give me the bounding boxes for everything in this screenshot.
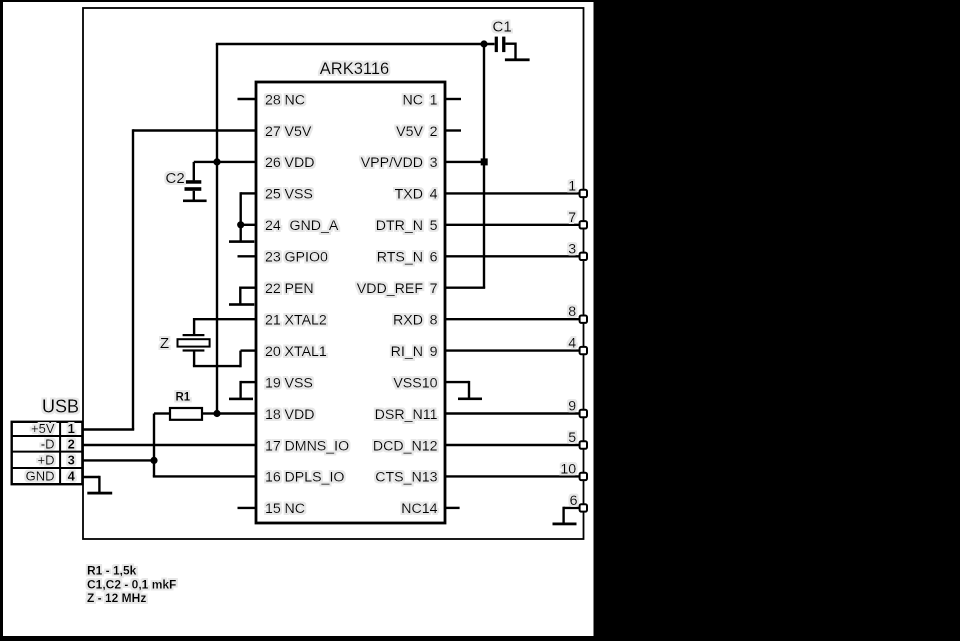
svg-text:VSS10: VSS10 [393, 375, 437, 391]
ground pin10 VSS [458, 398, 482, 401]
crystal Z bottom plate [183, 349, 205, 351]
node VDD-C1 junction [480, 40, 487, 47]
svg-text:XTAL2: XTAL2 [285, 313, 327, 329]
svg-text:VSS: VSS [285, 375, 313, 391]
wire pin3 VPP/VDD stub [445, 161, 484, 163]
wire +D vertical [153, 414, 155, 477]
wire pin4 to connector [445, 192, 580, 194]
USB connector table [12, 422, 83, 484]
svg-text:Z - 12 MHz: Z - 12 MHz [87, 591, 146, 605]
terminal circle 8 [580, 316, 587, 323]
svg-text:8: 8 [568, 304, 576, 320]
wire pin5 to connector [445, 224, 580, 226]
wire pin9 to connector [445, 349, 580, 351]
svg-text:8: 8 [430, 313, 438, 329]
capacitor C2 lead top [193, 162, 195, 181]
ground pin25 VSS [229, 240, 254, 243]
wire XTAL2 drop [193, 318, 195, 334]
resistor R1 body [170, 408, 202, 420]
node VPP/VDD junction square [481, 158, 488, 165]
wire pin26 VDD horizontal [194, 161, 256, 163]
pin 28 label NC [265, 92, 305, 108]
svg-text:DMNS_IO: DMNS_IO [285, 438, 350, 454]
svg-text:GND: GND [26, 468, 55, 483]
svg-text:1: 1 [68, 421, 75, 436]
terminal circle 6 [580, 504, 587, 511]
pin 16 label DPLS_IO [265, 470, 344, 486]
node GND_A junction [237, 221, 244, 228]
pin 24 label GND_A [265, 218, 339, 234]
svg-text:VDD: VDD [285, 155, 315, 171]
pin 22 label PEN [265, 281, 314, 297]
pin 8 label RXD [393, 313, 438, 329]
pin 21 label XTAL2 [265, 313, 327, 329]
pin 2 label V5V [396, 124, 437, 140]
wire R1 right lead [202, 412, 217, 414]
ground C2 [183, 200, 207, 203]
wire XTAL1 drop [193, 351, 195, 366]
svg-text:24: 24 [265, 218, 281, 234]
svg-text:VDD: VDD [285, 407, 315, 423]
svg-text:R1: R1 [176, 392, 191, 404]
svg-text:25: 25 [265, 187, 281, 203]
svg-text:ARK3116: ARK3116 [320, 60, 389, 78]
capacitor C2 plates [185, 180, 202, 191]
wire pin13 to connector [445, 475, 580, 477]
pin 9 label RI_N [391, 344, 438, 360]
ground pin19 VSS [229, 398, 253, 401]
svg-text:VSS: VSS [285, 187, 313, 203]
svg-text:1: 1 [430, 92, 438, 108]
svg-text:R1 - 1,5k: R1 - 1,5k [87, 564, 137, 578]
svg-text:5: 5 [430, 218, 438, 234]
svg-text:3: 3 [568, 241, 576, 257]
svg-text:22: 22 [265, 281, 281, 297]
wire pin21 XTAL2 horizontal [194, 318, 256, 320]
svg-text:26: 26 [265, 155, 281, 171]
pin 14 NC stub [445, 507, 460, 509]
pin 17 label DMNS_IO [265, 438, 349, 454]
svg-text:-D: -D [41, 437, 55, 452]
USB pin 4 GND [26, 468, 76, 483]
wire pin8 to connector [445, 318, 580, 320]
svg-text:9: 9 [430, 344, 438, 360]
terminal circle 3 [580, 253, 587, 260]
pin 26 label VDD [265, 155, 314, 171]
wire R1 left lead [154, 412, 170, 414]
wire XTAL1 bottom horizontal [193, 365, 241, 367]
wire pin22 PEN stub [240, 287, 256, 289]
wire pin6 to connector [445, 255, 580, 257]
svg-text:21: 21 [265, 313, 281, 329]
pin 1 label NC [403, 92, 438, 108]
wire VSS vertical [239, 192, 241, 241]
svg-text:7: 7 [430, 281, 438, 297]
svg-text:6: 6 [570, 493, 578, 509]
svg-text:15: 15 [265, 501, 281, 517]
wire C1 ground drop [514, 43, 516, 60]
svg-text:C1: C1 [493, 19, 512, 36]
ground C1 [505, 58, 530, 61]
svg-text:C2: C2 [166, 170, 185, 187]
pin 6 label RTS_N [377, 250, 438, 266]
svg-text:DTR_N: DTR_N [376, 218, 423, 234]
terminal circle 5 [580, 441, 587, 448]
wire VDD rail vertical [216, 44, 218, 414]
pin 1 NC stub [445, 98, 461, 100]
svg-text:GND_A: GND_A [290, 218, 339, 234]
wire pin12 to connector [445, 444, 580, 446]
wire USB +D stub [83, 459, 155, 461]
svg-text:CTS_N13: CTS_N13 [375, 470, 437, 486]
USB pin 1 +5V [31, 421, 75, 436]
svg-text:28: 28 [265, 92, 281, 108]
wire pin18 VDD stub [217, 412, 256, 414]
svg-text:6: 6 [430, 250, 438, 266]
pin 27 label V5V [265, 124, 312, 140]
svg-text:RI_N: RI_N [391, 344, 423, 360]
USB pin 2 -D [41, 437, 75, 452]
wire pin25 VSS stub [241, 192, 256, 194]
svg-text:3: 3 [430, 155, 438, 171]
crystal Z body [178, 339, 210, 346]
wire VDD top horizontal [216, 43, 495, 45]
svg-text:V5V: V5V [396, 124, 423, 140]
capacitor C2 lead bottom [193, 191, 195, 200]
wire C1 vertical to VDD_REF [483, 44, 485, 288]
node VDD-C2 junction [213, 158, 220, 165]
svg-text:2: 2 [430, 124, 438, 140]
terminal circle 9 [580, 410, 587, 417]
wire USB GND stub [83, 476, 99, 478]
svg-text:RXD: RXD [393, 313, 423, 329]
terminal circle 1 [580, 190, 587, 197]
wire terminal6 ground lead [564, 507, 580, 509]
USB pin 3 +D [38, 452, 75, 467]
terminal circle 7 [580, 221, 587, 228]
svg-text:XTAL1: XTAL1 [285, 344, 327, 360]
svg-text:TXD: TXD [395, 187, 423, 203]
svg-text:23: 23 [265, 250, 281, 266]
wire pin19 ground drop [239, 381, 241, 398]
svg-text:DCD_N12: DCD_N12 [373, 438, 438, 454]
pin 20 label XTAL1 [265, 344, 327, 360]
svg-text:3: 3 [68, 452, 75, 467]
wire terminal6 ground drop [562, 507, 564, 523]
wire pin16 DPLS_IO horizontal [153, 475, 256, 477]
terminal circle 4 [580, 347, 587, 354]
svg-text:PEN: PEN [285, 281, 314, 297]
svg-text:20: 20 [265, 344, 281, 360]
svg-text:18: 18 [265, 407, 281, 423]
wire XTAL1 rise [239, 351, 241, 368]
svg-text:C1,C2 - 0,1 mkF: C1,C2 - 0,1 mkF [87, 577, 176, 591]
ground terminal6 [553, 523, 577, 526]
pin 15 stub [238, 507, 257, 509]
pin 28 stub [238, 98, 257, 100]
node R1-VDD junction [213, 410, 220, 417]
svg-text:1: 1 [568, 178, 576, 194]
pin 23 stub [238, 255, 257, 257]
node +D junction [150, 457, 157, 464]
wire USB +5V stub [83, 428, 134, 430]
svg-text:NC: NC [285, 501, 306, 517]
svg-text:5: 5 [568, 430, 576, 446]
svg-text:2: 2 [68, 437, 75, 452]
svg-text:GPIO0: GPIO0 [285, 250, 328, 266]
svg-text:NC: NC [285, 92, 306, 108]
svg-text:DSR_N11: DSR_N11 [375, 407, 438, 423]
svg-text:+5V: +5V [31, 421, 55, 436]
pin 23 label GPIO0 [265, 250, 328, 266]
wire USB GND drop [98, 476, 100, 492]
ground USB GND [87, 492, 112, 495]
wire C1 right lead [505, 43, 515, 45]
pin 4 label TXD [395, 187, 438, 203]
svg-text:V5V: V5V [285, 124, 312, 140]
svg-text:VPP/VDD: VPP/VDD [361, 155, 423, 171]
svg-text:4: 4 [68, 468, 76, 483]
capacitor C1 plates [495, 37, 506, 53]
ground pin22 PEN [229, 303, 254, 306]
pin 7 label VDD_REF [357, 281, 438, 297]
svg-text:10: 10 [560, 461, 576, 477]
wire pin11 to connector [445, 412, 580, 414]
IC U1 ARK3116 body [256, 82, 445, 523]
svg-text:USB: USB [42, 396, 79, 416]
pin 19 label VSS [265, 375, 313, 391]
svg-text:VDD_REF: VDD_REF [357, 281, 424, 297]
pin 2 V5V stub [445, 129, 461, 131]
svg-text:27: 27 [265, 124, 281, 140]
wire pin17 DMNS_IO horizontal [83, 444, 256, 446]
svg-text:DPLS_IO: DPLS_IO [285, 470, 345, 486]
svg-text:17: 17 [265, 438, 281, 454]
svg-text:7: 7 [568, 210, 576, 226]
pin 3 label VPP/VDD [361, 155, 438, 171]
terminal circle 10 [580, 473, 587, 480]
pin 15 label NC [265, 501, 305, 517]
wire pin10 ground drop [468, 381, 470, 398]
crystal Z top plate [183, 334, 205, 336]
wire pin7 VDD_REF stub [445, 287, 485, 289]
svg-text:NC: NC [403, 92, 424, 108]
wire pin27 V5V horizontal [133, 129, 256, 131]
wire pin10 VSS stub [445, 381, 469, 383]
wire pin20 XTAL1 stub [241, 349, 257, 351]
wire PEN ground drop [239, 287, 241, 304]
svg-text:4: 4 [568, 336, 576, 352]
wire V5V vertical [132, 129, 134, 429]
pin 18 label VDD [265, 407, 314, 423]
pin 25 label VSS [265, 187, 313, 203]
svg-text:4: 4 [430, 187, 438, 203]
wire pin19 VSS stub [241, 381, 256, 383]
svg-text:9: 9 [568, 399, 576, 415]
svg-text:RTS_N: RTS_N [377, 250, 423, 266]
svg-text:+D: +D [38, 452, 55, 467]
svg-text:NC14: NC14 [401, 501, 437, 517]
pin 5 label DTR_N [376, 218, 438, 234]
svg-text:19: 19 [265, 375, 281, 391]
wire pin24 GND_A stub [241, 224, 256, 226]
svg-text:16: 16 [265, 470, 281, 486]
svg-text:Z: Z [160, 335, 169, 352]
